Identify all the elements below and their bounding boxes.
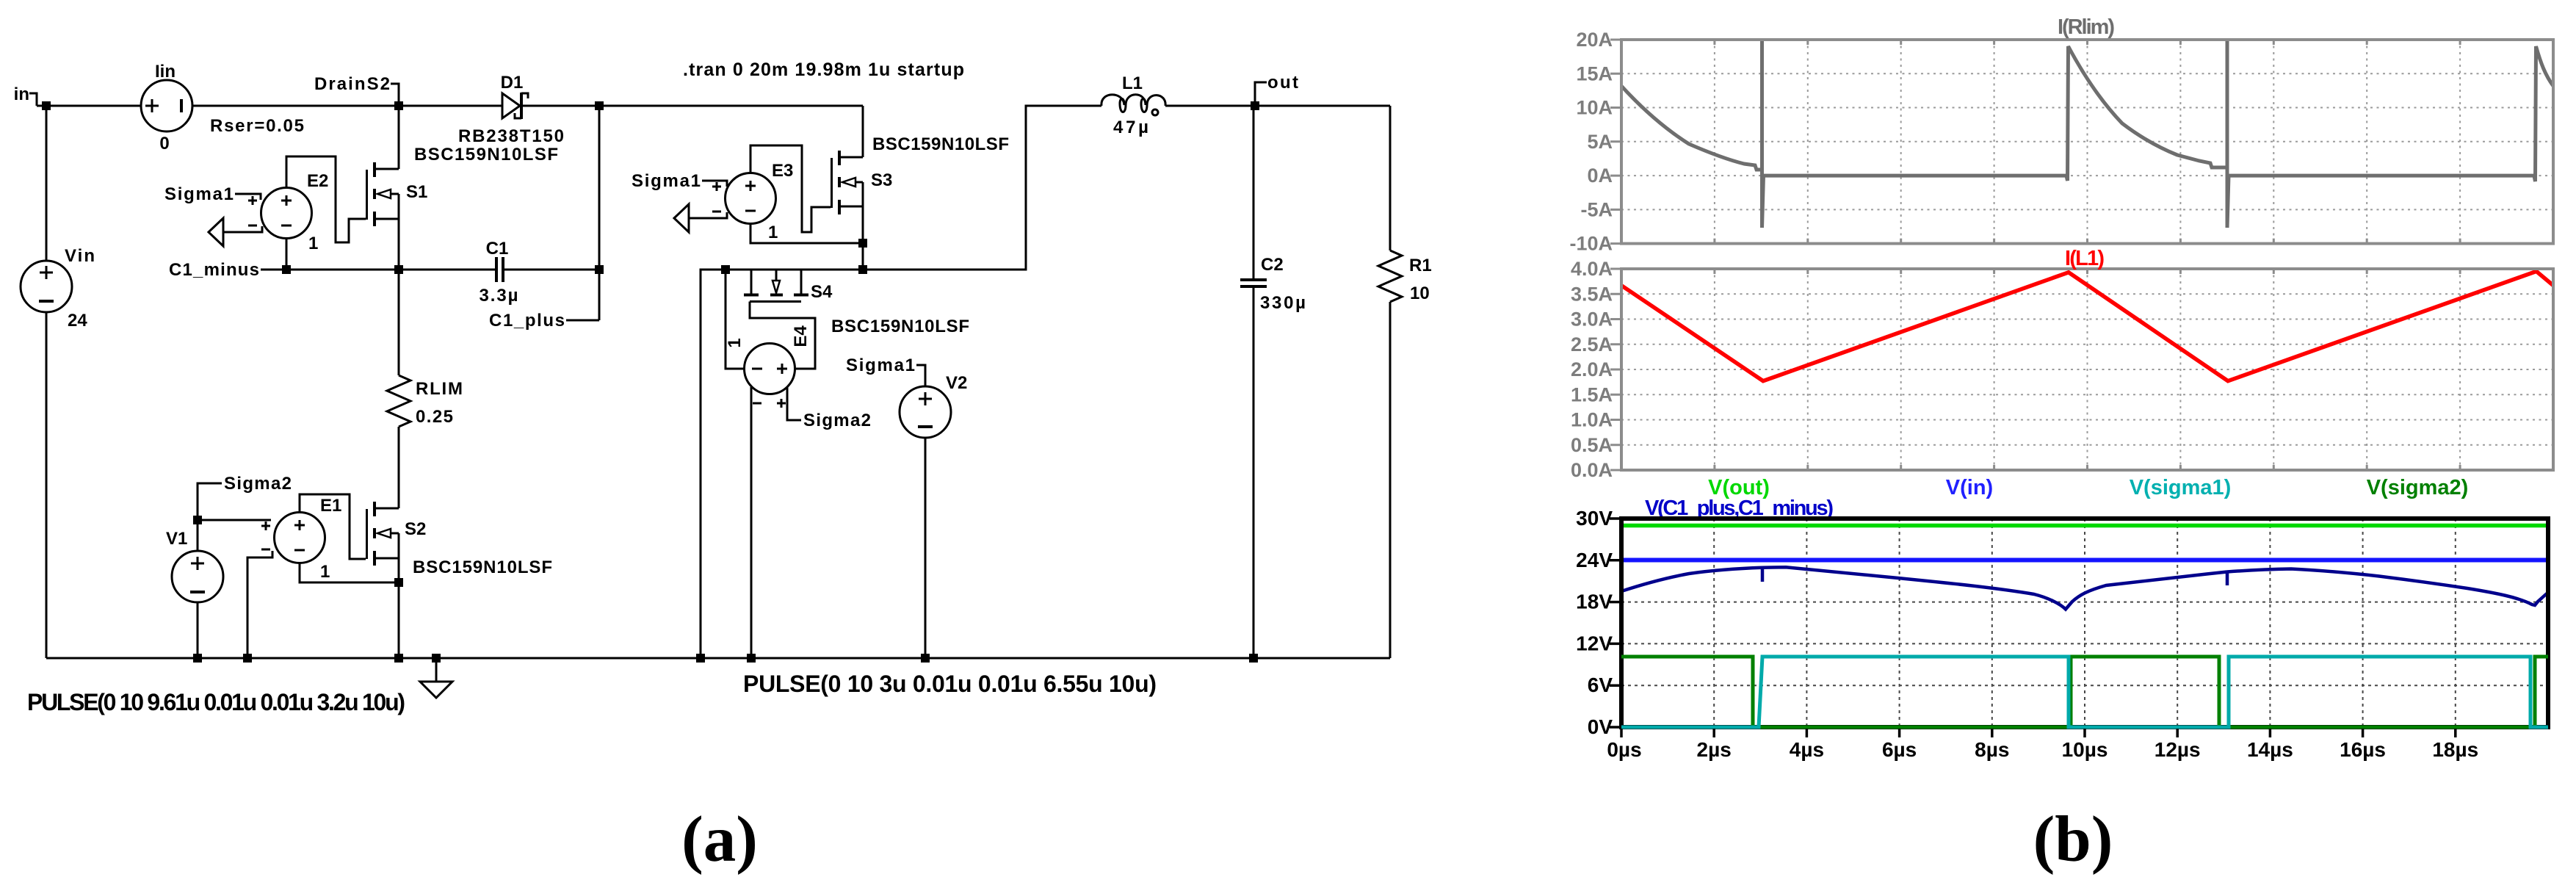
svg-text:12V: 12V bbox=[1576, 632, 1613, 654]
svg-text:-5A: -5A bbox=[1580, 198, 1613, 220]
vcvs E4 (rotated) bbox=[725, 325, 811, 408]
wire E3 bottom to S3 source bbox=[750, 224, 863, 243]
voltage source V1 bbox=[166, 529, 223, 602]
svg-text:6V: 6V bbox=[1588, 674, 1613, 696]
svg-text:2.5A: 2.5A bbox=[1571, 333, 1613, 355]
resistor RLIM 0.25 bbox=[387, 375, 463, 427]
svg-text:1: 1 bbox=[768, 223, 778, 242]
diode D1 RB238T150 bbox=[458, 73, 564, 146]
svg-text:24: 24 bbox=[68, 311, 87, 331]
svg-text:0.25: 0.25 bbox=[416, 407, 453, 427]
svg-text:18µs: 18µs bbox=[2432, 738, 2478, 761]
svg-text:0A: 0A bbox=[1587, 165, 1613, 187]
svg-text:C1_minus: C1_minus bbox=[169, 260, 259, 280]
svg-text:.tran 0 20m 19.98m 1u startup: .tran 0 20m 19.98m 1u startup bbox=[683, 59, 964, 80]
junction S1 source bbox=[394, 265, 403, 274]
wire V1 top bbox=[197, 520, 199, 551]
svg-text:C1: C1 bbox=[486, 239, 509, 259]
svg-text:S4: S4 bbox=[811, 282, 833, 302]
node Sigma2 label at V1 bbox=[198, 474, 292, 520]
wire S1 drain up bbox=[398, 106, 400, 169]
wire RLIM to S2 drain bbox=[398, 427, 400, 508]
wire C2 to rail bbox=[1253, 286, 1255, 658]
svg-text:0.5A: 0.5A bbox=[1571, 434, 1613, 456]
svg-text:0.0A: 0.0A bbox=[1571, 459, 1613, 481]
wire SW rail bbox=[701, 106, 1101, 658]
panel2 gridlines bbox=[1621, 269, 2553, 470]
svg-text:R1: R1 bbox=[1409, 256, 1432, 275]
svg-text:1: 1 bbox=[308, 234, 318, 253]
node Sigma1 label at E3 bbox=[632, 171, 727, 191]
node out (net label) bbox=[1255, 73, 1298, 106]
curve V(out) green bbox=[1621, 524, 2548, 528]
junction C1 right bbox=[595, 265, 604, 274]
panel3 x-axis labels bbox=[1607, 738, 2478, 761]
node C1_minus (net label) bbox=[169, 260, 259, 280]
svg-text:8µs: 8µs bbox=[1975, 738, 2009, 761]
svg-text:1.0A: 1.0A bbox=[1571, 409, 1613, 431]
svg-text:Sigma1: Sigma1 bbox=[164, 184, 234, 204]
panel3 frame bbox=[1621, 519, 2548, 727]
svg-text:BSC159N10LSF: BSC159N10LSF bbox=[413, 557, 552, 577]
wire R1 to rail bbox=[1389, 302, 1392, 658]
junction DrainS2 bbox=[394, 101, 403, 110]
svg-text:E4: E4 bbox=[791, 325, 811, 347]
svg-text:S1: S1 bbox=[406, 182, 427, 202]
node Sigma2 label at E4 bbox=[787, 387, 871, 430]
svg-text:BSC159N10LSF: BSC159N10LSF bbox=[831, 317, 969, 336]
svg-text:Rser=0.05: Rser=0.05 bbox=[210, 116, 304, 136]
panel2 inner ticks bbox=[1610, 269, 2460, 470]
wire S4 gate to E4 plus bbox=[750, 302, 815, 369]
wire V1 bottom bbox=[197, 602, 199, 658]
curve V(C1_plus,C1_minus) navy bbox=[1621, 567, 2548, 609]
svg-text:4.0A: 4.0A bbox=[1571, 258, 1613, 280]
junction C1_plus top bbox=[595, 101, 604, 110]
wire S2 source down to rail bbox=[398, 533, 400, 658]
capacitor C2 330u bbox=[1240, 255, 1306, 313]
junction rail E1 bbox=[243, 654, 252, 663]
ground rail wire bbox=[46, 657, 1390, 660]
curve V(sigma2) dark green bbox=[1621, 657, 2548, 727]
WAVEFORMS bbox=[1569, 15, 2553, 876]
panel1 y-axis labels bbox=[1569, 29, 1613, 255]
svg-text:-10A: -10A bbox=[1569, 233, 1613, 255]
junction rail V1 bbox=[193, 654, 202, 663]
svg-text:L1: L1 bbox=[1122, 73, 1143, 93]
svg-text:3.0A: 3.0A bbox=[1571, 308, 1613, 331]
wire out to R1 bbox=[1389, 106, 1392, 250]
curve I(Rlim) gray bbox=[1621, 86, 1762, 170]
svg-text:Sigma1: Sigma1 bbox=[632, 171, 701, 191]
wire E4 out minus up to SW bbox=[726, 270, 744, 369]
inductor L1 47u bbox=[1101, 73, 1165, 137]
svg-text:10A: 10A bbox=[1576, 97, 1613, 119]
wire S3 source down bbox=[862, 182, 864, 270]
svg-text:1.5A: 1.5A bbox=[1571, 383, 1613, 405]
node in (net label) bbox=[14, 84, 37, 106]
wire out to C2 bbox=[1253, 106, 1255, 279]
svg-text:3.3µ: 3.3µ bbox=[480, 286, 518, 306]
svg-text:24V: 24V bbox=[1576, 549, 1613, 571]
nmos S2 bbox=[367, 502, 427, 566]
node Sigma1 label at E2 bbox=[164, 184, 261, 204]
curve V(in) blue bbox=[1621, 558, 2548, 563]
svg-text:D1: D1 bbox=[501, 73, 524, 93]
node C1_plus (net label) bbox=[489, 311, 599, 331]
svg-text:1: 1 bbox=[725, 338, 745, 347]
svg-text:20A: 20A bbox=[1576, 29, 1613, 51]
svg-text:10µs: 10µs bbox=[2062, 738, 2108, 761]
svg-text:Sigma2: Sigma2 bbox=[224, 474, 292, 494]
wire E3 top to S3 gate bbox=[750, 145, 831, 232]
panel1 gridlines bbox=[1621, 40, 2553, 244]
voltage source Vin bbox=[21, 246, 95, 331]
svg-text:BSC159N10LSF: BSC159N10LSF bbox=[872, 134, 1009, 154]
panel1 frame bbox=[1621, 40, 2553, 244]
svg-text:0µs: 0µs bbox=[1607, 738, 1641, 761]
svg-text:S2: S2 bbox=[405, 519, 426, 539]
svg-text:6µs: 6µs bbox=[1882, 738, 1917, 761]
wire S1 source down bbox=[398, 194, 400, 375]
svg-text:2µs: 2µs bbox=[1697, 738, 1732, 761]
junction E2 bottom bbox=[282, 265, 291, 274]
wire Vin to ground rail bbox=[46, 312, 48, 658]
junction E3 bottom bbox=[858, 239, 867, 248]
svg-text:14µs: 14µs bbox=[2247, 738, 2293, 761]
svg-text:RB238T150: RB238T150 bbox=[458, 126, 564, 146]
svg-text:2.0A: 2.0A bbox=[1571, 358, 1613, 380]
wire V2 to rail bbox=[925, 438, 927, 658]
wire top to S3 drain bbox=[862, 106, 864, 157]
svg-text:PULSE(0 10 3u 0.01u 0.01u 6.55: PULSE(0 10 3u 0.01u 0.01u 6.55u 10u) bbox=[743, 671, 1157, 697]
svg-text:DrainS2: DrainS2 bbox=[314, 74, 390, 94]
junction out bbox=[1251, 101, 1259, 110]
wire E2 bottom bbox=[286, 239, 288, 270]
svg-text:3.5A: 3.5A bbox=[1571, 283, 1613, 305]
svg-text:RLIM: RLIM bbox=[416, 379, 463, 399]
svg-text:30V: 30V bbox=[1576, 507, 1613, 530]
svg-text:V2: V2 bbox=[946, 373, 967, 393]
wire L1 to out bbox=[1165, 105, 1390, 107]
wire top rail left bbox=[37, 105, 141, 107]
curve V(sigma1) cyan bbox=[1621, 657, 2548, 727]
wire Vin to rail bbox=[46, 106, 48, 261]
voltage source V2 bbox=[900, 373, 967, 438]
wire V1 to E1 plus input bbox=[198, 519, 271, 521]
panel3 y-axis labels bbox=[1576, 507, 1613, 738]
nmos S1 bbox=[367, 162, 428, 226]
vcvs E2 bbox=[248, 171, 328, 253]
svg-text:V(in): V(in) bbox=[1946, 476, 1993, 499]
svg-text:out: out bbox=[1267, 73, 1298, 93]
junction V1 top bbox=[193, 516, 202, 524]
svg-text:(a): (a) bbox=[681, 804, 758, 876]
node Sigma1 label at V2 bbox=[846, 355, 925, 386]
svg-text:I(Rlim): I(Rlim) bbox=[2058, 15, 2115, 39]
ground symbol bbox=[420, 658, 452, 698]
vcvs E3 bbox=[712, 161, 793, 242]
current source Iin bbox=[141, 62, 304, 154]
curve I(L1) red bbox=[1621, 271, 2553, 380]
wire E2 top to S1 gate bbox=[286, 156, 366, 242]
svg-text:18V: 18V bbox=[1576, 591, 1613, 613]
svg-text:I(L1): I(L1) bbox=[2065, 247, 2105, 270]
wire D1 to S3 drain corner bbox=[521, 105, 863, 107]
wire E1 minus input to rail bbox=[247, 551, 272, 658]
svg-text:16µs: 16µs bbox=[2340, 738, 2386, 761]
panel1 inner ticks bbox=[1610, 40, 2460, 244]
svg-text:0: 0 bbox=[159, 134, 169, 154]
junction rail V2 bbox=[921, 654, 930, 663]
junction rail E4 bbox=[747, 654, 756, 663]
svg-text:5A: 5A bbox=[1587, 131, 1613, 153]
svg-text:4µs: 4µs bbox=[1790, 738, 1824, 761]
svg-text:(b): (b) bbox=[2033, 804, 2113, 876]
svg-text:Sigma1: Sigma1 bbox=[846, 355, 915, 375]
capacitor C1 3.3u bbox=[480, 239, 600, 306]
svg-text:E2: E2 bbox=[307, 171, 328, 191]
svg-text:V1: V1 bbox=[166, 529, 187, 549]
panel2 frame bbox=[1621, 269, 2553, 470]
svg-text:V(sigma2): V(sigma2) bbox=[2367, 476, 2469, 499]
panel3 gridlines bbox=[1621, 519, 2548, 727]
nmos S4 (rotated) bbox=[744, 270, 833, 302]
junction rail S2 bbox=[394, 654, 403, 663]
resistor R1 10 bbox=[1378, 250, 1432, 303]
junction E4 out minus bbox=[721, 265, 730, 274]
wire Iin to D1 bbox=[192, 105, 502, 107]
junction rail C2 bbox=[1249, 654, 1258, 663]
svg-text:12µs: 12µs bbox=[2154, 738, 2201, 761]
ground arrow at E2 minus input bbox=[209, 218, 262, 246]
junction rail ground bbox=[432, 654, 441, 663]
svg-text:C1_plus: C1_plus bbox=[489, 311, 565, 331]
panel2 y-axis labels bbox=[1571, 258, 1613, 481]
junction in/Vin bbox=[42, 101, 51, 110]
vcvs E1 bbox=[261, 496, 341, 582]
panel3 axis ticks bbox=[1610, 519, 2456, 737]
svg-text:Sigma2: Sigma2 bbox=[803, 411, 871, 430]
svg-text:1: 1 bbox=[320, 562, 330, 582]
node DrainS2 (net label) bbox=[314, 74, 399, 106]
svg-text:V(sigma1): V(sigma1) bbox=[2130, 476, 2232, 499]
wire C1_plus vertical bbox=[598, 106, 601, 320]
wire E1 top to S2 gate bbox=[300, 494, 366, 559]
junction S2/E1 out bbox=[394, 578, 403, 587]
ground arrow at E3 minus input bbox=[674, 204, 727, 232]
wire E1 bottom to S2 source bbox=[300, 563, 399, 582]
svg-text:15A: 15A bbox=[1576, 62, 1613, 84]
svg-text:Vin: Vin bbox=[65, 246, 95, 266]
nmos S3 bbox=[832, 151, 893, 214]
svg-text:Iin: Iin bbox=[155, 62, 176, 82]
svg-text:in: in bbox=[14, 84, 29, 104]
svg-text:0V: 0V bbox=[1588, 715, 1613, 738]
svg-text:C2: C2 bbox=[1261, 255, 1284, 275]
junction rail SW leg bbox=[696, 654, 705, 663]
wire C1_minus rail bbox=[261, 269, 496, 271]
svg-text:47µ: 47µ bbox=[1113, 118, 1148, 137]
svg-text:E1: E1 bbox=[320, 496, 341, 516]
svg-text:10: 10 bbox=[1410, 284, 1430, 303]
wire E4 ctrl minus to rail bbox=[750, 387, 753, 658]
svg-text:PULSE(0 10 9.61u 0.01u 0.01u 3: PULSE(0 10 9.61u 0.01u 0.01u 3.2u 10u) bbox=[27, 689, 405, 715]
svg-text:S3: S3 bbox=[871, 170, 892, 190]
junction SW node bbox=[858, 265, 867, 274]
svg-text:E3: E3 bbox=[772, 161, 793, 181]
